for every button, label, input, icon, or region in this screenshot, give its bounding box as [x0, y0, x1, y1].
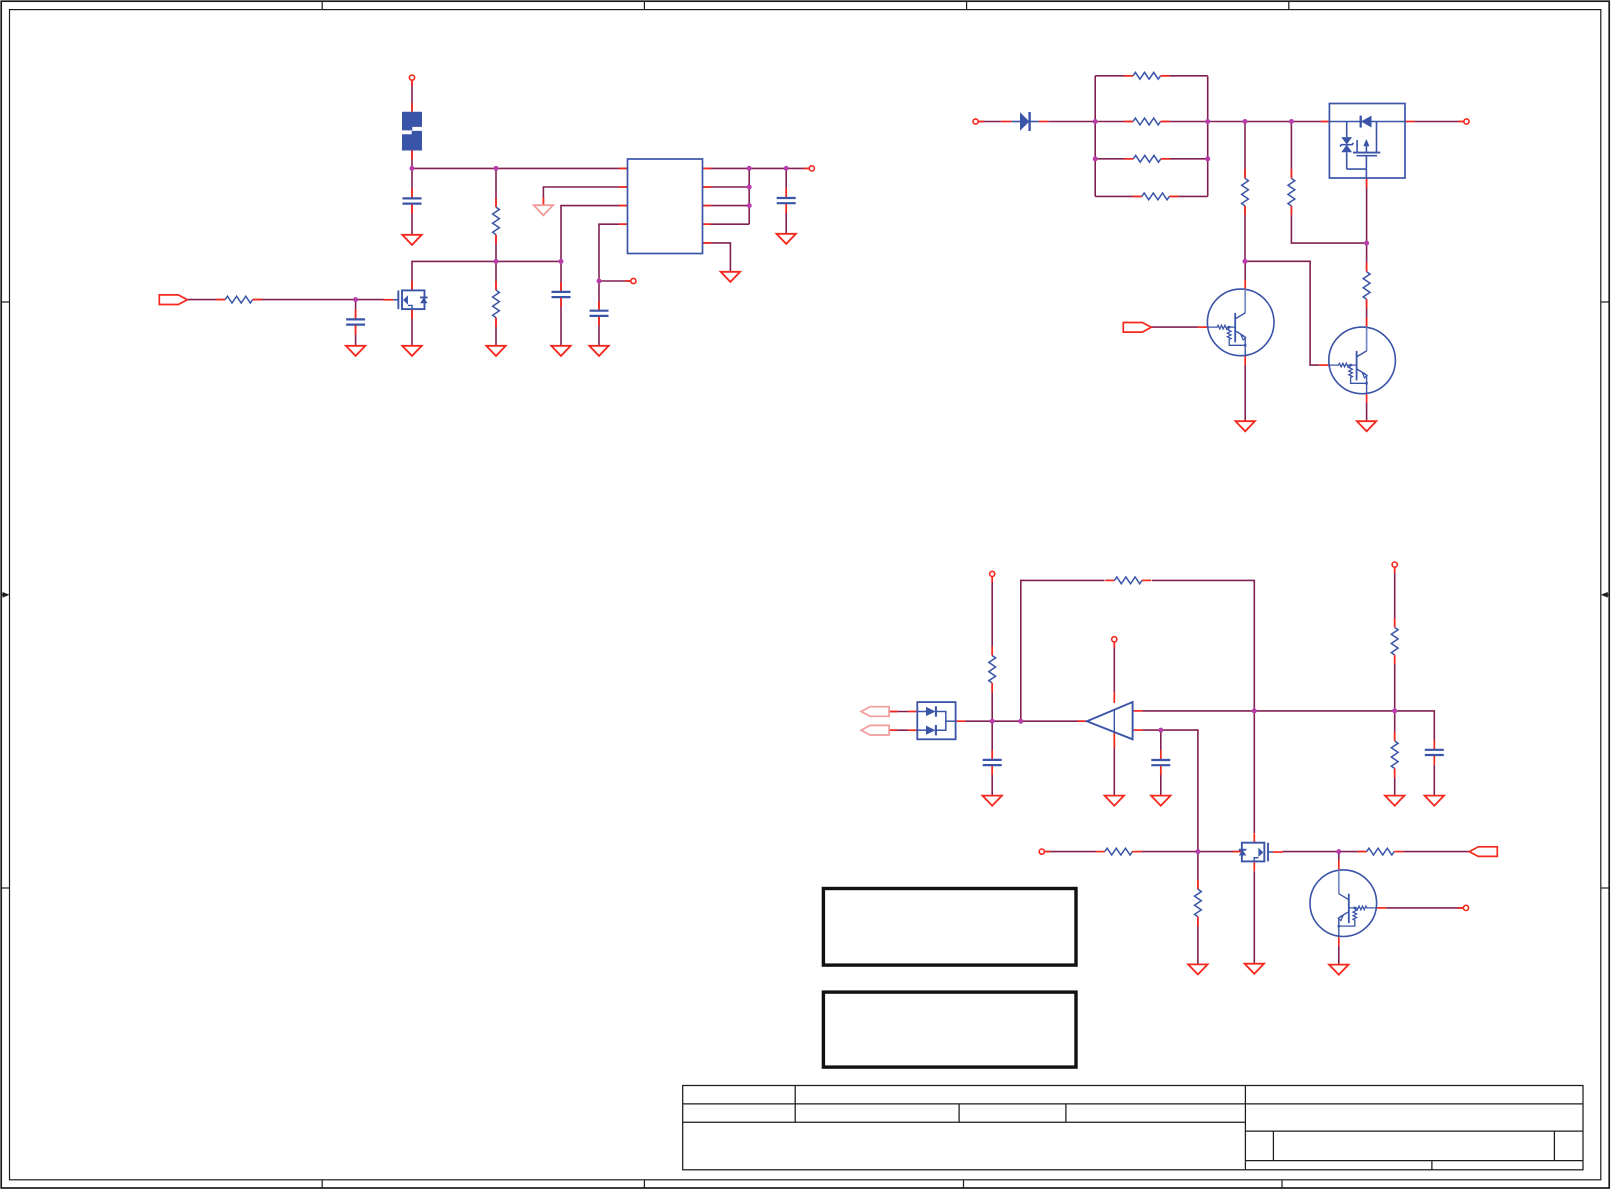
- note box 2: [823, 992, 1076, 1067]
- ground below C1: [402, 235, 421, 245]
- wire bank row 1: [1095, 75, 1208, 77]
- wire Q1 collector: [1244, 261, 1246, 280]
- junction R1 bottom: [494, 259, 499, 264]
- ground below C3: [551, 346, 570, 356]
- terminal pullup top: [1392, 562, 1397, 573]
- CIRCUIT 2: [978, 76, 1464, 421]
- resistor R1: [493, 198, 500, 244]
- MOSFET M1: [383, 281, 427, 319]
- wire port to Q1 base: [1151, 326, 1198, 328]
- wire IC pin2 to ground: [543, 187, 627, 205]
- junction bank left top: [1093, 119, 1098, 124]
- wire R6 branch: [1291, 122, 1366, 244]
- junction R1 top: [494, 166, 499, 171]
- title block cell divider b: [1065, 1104, 1067, 1122]
- resistor R bank 3: [1124, 155, 1170, 162]
- capacitor C8: [1151, 750, 1170, 775]
- terminal output right: [1458, 119, 1469, 124]
- wire opamp V- to ground: [1113, 740, 1115, 795]
- MOSFET package U2: [1321, 104, 1415, 188]
- ground below C8: [1151, 796, 1170, 806]
- ground below R2: [486, 346, 505, 356]
- wire MOSFET source to ground: [411, 309, 413, 345]
- wire node A to IC pin1: [412, 167, 628, 169]
- wire bank row 3: [1095, 158, 1208, 160]
- ground below M2: [1245, 964, 1264, 974]
- centre arrow left edge: [1, 592, 9, 598]
- resistor R3: [216, 296, 262, 303]
- resistor R2: [493, 281, 500, 327]
- resistor R12: [1357, 848, 1403, 855]
- wire fuse to node A: [411, 150, 413, 168]
- resistor R13 divider: [989, 646, 996, 692]
- capacitor C1: [403, 189, 422, 214]
- title block row line full width: [683, 1103, 1583, 1105]
- TITLE BLOCK: [683, 1086, 1583, 1170]
- zone tick right 1: [1601, 301, 1609, 303]
- wire opto input 2: [889, 729, 908, 731]
- wire package to output terminal: [1415, 121, 1464, 123]
- wire M2 source to ground: [1253, 871, 1255, 963]
- wire R2 branch to ground: [495, 261, 497, 345]
- junction IC bus 1: [747, 166, 752, 171]
- junction C4 node: [597, 279, 602, 284]
- junction gate node: [1195, 849, 1200, 854]
- title block outer box: [683, 1086, 1583, 1170]
- title block right row line b: [1245, 1160, 1583, 1162]
- terminal VIN top: [409, 75, 414, 86]
- wire feedback loop: [1021, 580, 1105, 721]
- wire C5 branch to ground: [785, 168, 787, 233]
- wire C4 node to terminal: [599, 280, 631, 282]
- ground IC pin2 (pale): [534, 197, 553, 215]
- package internal diode: [1360, 116, 1362, 128]
- zone tick bottom 2: [643, 1180, 645, 1188]
- title block right sub divider a: [1272, 1131, 1274, 1161]
- zone tick bottom 3: [963, 1180, 965, 1188]
- wire node A down to C1 and ground: [411, 168, 413, 234]
- wire C9 to ground: [1433, 765, 1435, 795]
- junction Q3 node: [1336, 849, 1341, 854]
- note box 1: [823, 889, 1076, 966]
- opto diodes U3: [908, 702, 965, 739]
- wire package source down: [1366, 178, 1368, 243]
- wire C2 branch to ground: [355, 300, 357, 346]
- wire R12 to output port: [1403, 851, 1469, 853]
- MOSFET M2: [1233, 851, 1242, 853]
- junction Q1 collector node: [1243, 259, 1248, 264]
- capacitor C2: [346, 310, 365, 335]
- wire Q3 emitter to ground: [1338, 946, 1340, 965]
- terminal supply top: [990, 571, 995, 582]
- fuse F1: [402, 103, 422, 159]
- wire M2 gate to Q3 node: [1283, 851, 1339, 853]
- transistor Q1: [1198, 280, 1274, 365]
- transistor Q3: [1310, 861, 1386, 946]
- junction C8 node: [1158, 728, 1163, 733]
- terminal opamp supply: [1112, 637, 1117, 648]
- zone tick top 2: [643, 1, 645, 9]
- wire feedback resistor to inverting node: [1152, 580, 1254, 711]
- wire gate node to M2: [1198, 851, 1242, 853]
- ground below Q2: [1357, 421, 1376, 431]
- resistor R9 lower: [1391, 732, 1398, 778]
- capacitor C5: [777, 188, 796, 213]
- zone tick bottom 4: [1281, 1180, 1283, 1188]
- ground below M1: [402, 346, 421, 356]
- title block right row line a: [1245, 1130, 1583, 1132]
- wire inverting node down to M2 drain: [1253, 711, 1255, 833]
- junction C3 top: [559, 259, 564, 264]
- wire IC pin3 to C3: [561, 206, 628, 262]
- wire R10 to gate node: [1142, 851, 1198, 853]
- ground below C5: [777, 234, 796, 244]
- junction C5 top: [784, 166, 789, 171]
- port P1: [159, 295, 187, 305]
- title block centre divider: [1244, 1086, 1246, 1170]
- wire diode to resistor bank: [1048, 121, 1095, 123]
- CIRCUIT 3: [965, 567, 1469, 964]
- centre arrow right edge: [1601, 592, 1609, 598]
- port output right: [1469, 847, 1497, 857]
- wire supply terminal to divider node: [991, 577, 993, 722]
- terminal VOUT right: [803, 166, 814, 171]
- ground below C4: [589, 346, 608, 356]
- resistor R14 feedback: [1105, 577, 1151, 584]
- wire IC pin6: [703, 223, 750, 225]
- wire mid rail horizontal: [412, 261, 561, 290]
- junction bank right top: [1205, 119, 1210, 124]
- ground below Q1: [1236, 421, 1255, 431]
- terminal gate input: [1039, 849, 1050, 854]
- wire bank row 2: [1095, 121, 1208, 123]
- zone tick bottom 1: [321, 1180, 323, 1188]
- CIRCUIT 1: [187, 80, 809, 345]
- zone tick right 2: [1601, 887, 1609, 889]
- junction feedback node: [1018, 719, 1023, 724]
- title block left column divider: [794, 1086, 796, 1123]
- title block cell divider a: [958, 1104, 960, 1122]
- wire Q2 emitter to ground: [1366, 403, 1368, 421]
- junction source node: [1364, 241, 1369, 246]
- resistor R5: [1242, 169, 1249, 215]
- junction divider node: [990, 719, 995, 724]
- junction pullup node: [1392, 708, 1397, 713]
- wire gate node to R11 and ground: [1197, 852, 1199, 965]
- wire non-inverting input run: [1142, 711, 1434, 740]
- wire resistor bank left rail: [1094, 76, 1096, 197]
- wire pullup terminal to R8: [1394, 567, 1396, 711]
- resistor R6: [1288, 169, 1295, 215]
- port P2: [1123, 323, 1151, 333]
- resistor R bank 1: [1124, 72, 1170, 79]
- wire Q1 collector node to Q2 base: [1245, 261, 1319, 365]
- junction R6 top: [1289, 119, 1294, 124]
- wire C4 to ground: [598, 281, 600, 346]
- wire resistor bank right rail: [1207, 76, 1209, 197]
- wire Q3 collector: [1338, 852, 1340, 861]
- terminal input left: [973, 119, 984, 124]
- wire C3 to ground: [560, 261, 562, 345]
- resistor R bank 2: [1124, 118, 1170, 125]
- zone tick top 4: [1288, 1, 1290, 9]
- wire IC right pins bus: [748, 168, 750, 224]
- terminal mid: [625, 278, 636, 283]
- terminal Q3 base right: [1458, 905, 1469, 910]
- junction bank left lower: [1093, 156, 1098, 161]
- wire divider node to C7: [991, 721, 993, 795]
- junction inverting node: [1252, 708, 1257, 713]
- capacitor C3: [552, 282, 571, 307]
- wire IC pin4 to C4: [599, 224, 628, 281]
- wire IC pin7: [703, 205, 750, 207]
- package internal MOSFET arrow: [1363, 139, 1369, 146]
- ground below C2: [346, 346, 365, 356]
- capacitor C4: [590, 301, 609, 326]
- zone tick top 1: [321, 1, 323, 9]
- junction IC bus 2: [747, 185, 752, 190]
- wire bank row 4: [1095, 195, 1208, 197]
- wire R5 branch: [1244, 122, 1246, 262]
- transistor Q2: [1319, 318, 1395, 403]
- zone tick top 3: [966, 1, 968, 9]
- wire inverting input to C8 node: [1142, 730, 1198, 852]
- title block left second row line: [683, 1121, 1246, 1123]
- wire source node to R7 and Q2 collector: [1366, 243, 1368, 327]
- wire opto input 1: [889, 711, 908, 713]
- wire opamp V+: [1113, 642, 1115, 692]
- ground below R11: [1188, 964, 1207, 974]
- junction gate node: [353, 297, 358, 302]
- ground IC pin5: [721, 272, 740, 282]
- ground below C9: [1425, 796, 1444, 806]
- title block right sub divider b: [1553, 1131, 1555, 1161]
- resistor R7: [1363, 263, 1370, 309]
- zone tick left 2: [1, 887, 9, 889]
- ground below C7: [983, 796, 1002, 806]
- wire Q1 emitter to ground: [1244, 365, 1246, 421]
- resistor R10: [1096, 848, 1142, 855]
- title block bottom row divider: [1431, 1161, 1433, 1170]
- resistor R bank 4: [1133, 193, 1179, 200]
- resistor R11: [1195, 880, 1202, 926]
- diode D1: [1001, 112, 1048, 131]
- port opto input 2 (pale): [861, 725, 889, 735]
- port opto input 1 (pale): [861, 707, 889, 717]
- wire R1 branch: [495, 168, 497, 261]
- capacitor C7: [983, 750, 1002, 775]
- ground below R9: [1385, 796, 1404, 806]
- capacitor C9: [1425, 740, 1444, 765]
- package internal TVS: [1341, 137, 1352, 144]
- wire IC pin5 to ground: [703, 243, 731, 272]
- wire bank to MOSFET package: [1208, 121, 1330, 123]
- junction node A: [410, 166, 415, 171]
- wire R9 to ground: [1394, 711, 1396, 795]
- wire VIN terminal to fuse: [411, 80, 413, 111]
- junction IC bus 3: [747, 203, 752, 208]
- wire Q3 node to R12: [1339, 851, 1367, 853]
- ground below Q3: [1329, 965, 1348, 975]
- wire gate input terminal to R10: [1044, 851, 1096, 853]
- junction R5 top: [1243, 119, 1248, 124]
- wire Q3 base to terminal: [1386, 907, 1463, 909]
- junction bank right lower: [1205, 156, 1210, 161]
- wire port to MOSFET gate: [187, 299, 383, 301]
- wire input terminal to diode: [978, 121, 1001, 123]
- wire opto output to opamp output: [965, 720, 1087, 722]
- wire IC pin8: [703, 186, 750, 188]
- wire C8 to ground: [1160, 730, 1162, 795]
- op-amp U4: [1078, 692, 1143, 747]
- IC U1: [619, 159, 711, 254]
- ground opamp V-: [1105, 796, 1124, 806]
- resistor R8 pullup: [1391, 618, 1398, 664]
- zone tick left 1: [1, 301, 9, 303]
- wire IC pin9 to VOUT terminal: [703, 167, 810, 169]
